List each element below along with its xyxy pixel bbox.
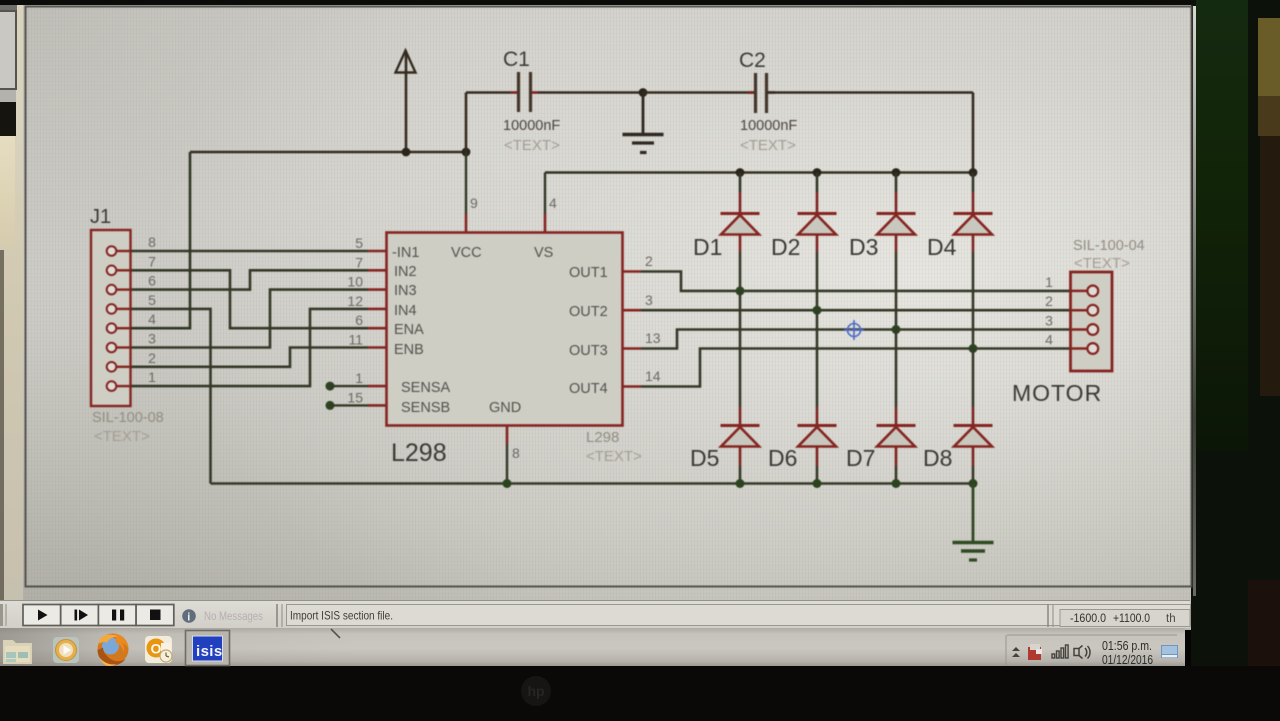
junction D7 / ground rail xyxy=(892,479,901,488)
wire VCC column upper xyxy=(465,93,468,153)
J1 pin stub 2 xyxy=(117,366,131,368)
junction GND pin / ground rail xyxy=(503,479,512,488)
svg-text:th: th xyxy=(1166,613,1176,625)
D2 anode lead xyxy=(816,235,819,253)
ground symbol (top, between C1 and C2) xyxy=(623,93,664,153)
J1 pin stub 4 xyxy=(117,327,131,329)
junction power arrow / VCC rail xyxy=(402,148,411,157)
diode D5 xyxy=(721,426,760,447)
pin 9 VCC of U1 xyxy=(465,152,467,214)
MOTOR pin stub 1 xyxy=(1070,290,1087,293)
pin stub OUT 14 xyxy=(623,385,642,388)
wire J1.5 to ground rail xyxy=(131,309,211,484)
right bezel xyxy=(1191,0,1280,721)
D1 anode lead xyxy=(739,235,742,253)
D5 anode lead xyxy=(739,447,742,467)
wire VS bus to D1 xyxy=(739,173,742,193)
pin stub 11 xyxy=(368,346,387,349)
pin 4 VS of U1 xyxy=(544,173,546,215)
junction VS bus / D3 column xyxy=(892,168,901,177)
diode D7 xyxy=(877,426,916,447)
wire OUT3 to MOTOR pin3 xyxy=(641,330,1071,349)
wire VCC rail horizontal xyxy=(190,151,466,154)
pin stub OUT 2 xyxy=(623,270,642,273)
D8 anode lead xyxy=(972,447,975,467)
svg-text:i: i xyxy=(187,612,190,624)
junction D5 / ground rail xyxy=(736,479,745,488)
wire OUT4 to MOTOR pin4 xyxy=(641,349,1071,387)
taskbar media player icon xyxy=(53,637,79,663)
svg-text:isis: isis xyxy=(196,643,223,660)
schematic sheet border xyxy=(26,7,1192,587)
taskbar ISIS icon active xyxy=(186,631,230,666)
junction SENSA stub xyxy=(326,382,335,391)
wire top rail ground tap to C2 xyxy=(643,91,755,94)
J1 pin stub 5 xyxy=(117,308,131,310)
D7 anode lead xyxy=(895,447,898,467)
wire J1.1 to IN4 xyxy=(131,309,368,386)
capacitor C1 xyxy=(511,72,539,112)
pin stub OUT 13 xyxy=(623,347,642,350)
D3 cathode lead xyxy=(895,192,898,214)
wire J1.8 to IN1 xyxy=(131,250,368,253)
D8 cathode lead xyxy=(972,407,975,426)
wire right drop to VS bus xyxy=(972,93,975,173)
diode D6 xyxy=(798,426,837,447)
D7 cathode lead xyxy=(895,407,898,426)
wire J1.2 to ENB xyxy=(131,348,368,367)
MOTOR pin stub 4 xyxy=(1070,347,1087,350)
D1 cathode lead xyxy=(739,192,742,214)
junction D3/D7 column on OUT line xyxy=(892,325,901,334)
junction top rail / ground xyxy=(639,88,648,97)
editor cursor crosshair xyxy=(844,320,864,340)
J1 pin stub 8 xyxy=(117,250,131,252)
J1 pin circle 1 xyxy=(107,381,117,391)
pin stub OUT 3 xyxy=(623,309,642,312)
connector MOTOR SIL-100-04 body xyxy=(1071,272,1113,371)
svg-text:+1100.0: +1100.0 xyxy=(1113,611,1150,625)
wire OUT2 to MOTOR pin2 xyxy=(641,309,1071,312)
wire SENSB stub xyxy=(330,404,368,406)
D4 cathode lead xyxy=(972,192,975,214)
junction D2/D6 column on OUT line xyxy=(813,306,822,315)
junction D8 / ground rail xyxy=(969,479,978,488)
svg-text:-1600.0: -1600.0 xyxy=(1070,611,1106,625)
wire top rail C1 to ground tap xyxy=(538,91,643,94)
wire J1.6 to IN2 xyxy=(131,270,368,289)
connector J1 SIL-100-08 body xyxy=(91,230,131,406)
MOTOR pin stub 3 xyxy=(1070,328,1087,331)
wire D1 to OUT line xyxy=(739,252,742,291)
taskbar xyxy=(0,627,1185,666)
system tray xyxy=(1007,634,1177,636)
wire J1.3 to IN3 xyxy=(131,290,368,348)
power symbol VCC arrow xyxy=(396,51,416,153)
wire D2 to OUT line xyxy=(816,252,819,310)
D6 anode lead xyxy=(816,447,819,467)
pin stub 1 SENSA xyxy=(368,385,387,388)
left margin column xyxy=(0,0,23,600)
J1 pin stub 1 xyxy=(117,385,131,387)
wire D3 to OUT line xyxy=(895,252,898,330)
taskbar folder icon xyxy=(3,640,32,664)
wire OUT1 to MOTOR pin1 xyxy=(641,272,1071,291)
wire top rail C2 to right corner xyxy=(767,91,973,94)
top bezel strip xyxy=(0,0,1280,5)
wire ground rail bottom xyxy=(211,482,974,485)
wire VS bus to D4 xyxy=(972,173,975,193)
J1 pin circle 3 xyxy=(107,343,117,353)
status toolbar row xyxy=(0,600,1190,628)
J1 pin circle 6 xyxy=(107,285,117,295)
pin stub 15 SENSB xyxy=(368,404,387,407)
J1 pin circle 2 xyxy=(107,362,117,372)
pin stub 7 xyxy=(368,269,387,272)
junction D1/D5 column on OUT line xyxy=(736,286,745,295)
bottom black bezel xyxy=(0,666,1280,721)
diode D3 xyxy=(877,214,916,235)
svg-text:Import ISIS section file.: Import ISIS section file. xyxy=(290,609,393,623)
J1 pin stub 6 xyxy=(117,288,131,290)
wire D4 to OUT line xyxy=(972,252,975,349)
diode D8 xyxy=(954,426,993,447)
D6 cathode lead xyxy=(816,407,819,426)
svg-text:01/12/2016: 01/12/2016 xyxy=(1102,653,1153,667)
capacitor C2 xyxy=(748,73,775,113)
junction VS bus / D1 column xyxy=(736,168,745,177)
wire D5 to ground rail xyxy=(739,466,742,484)
MOTOR pin stub 2 xyxy=(1070,309,1087,312)
junction D6 / ground rail xyxy=(813,479,822,488)
diode D4 xyxy=(954,214,993,235)
wire OUT line down to D8 xyxy=(972,349,975,408)
wire OUT line down to D6 xyxy=(816,310,819,407)
J1 pin circle 4 xyxy=(107,323,117,333)
wire J1.7 to ENA xyxy=(131,270,368,328)
D5 cathode lead xyxy=(739,407,742,426)
junction D4/D8 column on OUT line xyxy=(969,344,978,353)
pin stub 12 xyxy=(368,308,387,311)
wire VS bus above diodes xyxy=(545,171,973,174)
junction VS bus / D4 column xyxy=(969,168,978,177)
svg-text:No Messages: No Messages xyxy=(204,609,263,623)
wire VS bus to D2 xyxy=(816,173,819,193)
wire J1.4 to VCC rail xyxy=(131,152,190,328)
taskbar outlook icon xyxy=(145,636,172,663)
D4 anode lead xyxy=(972,235,975,253)
junction VCC rail / VCC pin column xyxy=(462,148,471,157)
taskbar firefox icon xyxy=(98,634,129,667)
J1 pin stub 7 xyxy=(117,269,131,271)
pin 8 GND of U1 xyxy=(506,426,509,445)
J1 pin circle 8 xyxy=(107,246,117,256)
wire top rail from VCC column to C1 xyxy=(466,91,511,94)
wire VS bus to D3 xyxy=(895,173,898,193)
junction SENSB stub xyxy=(326,401,335,410)
svg-text:01:56 p.m.: 01:56 p.m. xyxy=(1102,639,1152,653)
pin stub 10 xyxy=(368,288,387,291)
pin stub 5 xyxy=(368,250,387,253)
diode D2 xyxy=(798,214,837,235)
diode D1 xyxy=(721,214,760,235)
op-amp/driver IC U1 L298 body xyxy=(387,233,623,426)
wire OUT line down to D7 xyxy=(895,330,898,408)
wire D6 to ground rail xyxy=(816,466,819,484)
wire OUT line down to D5 xyxy=(739,291,742,407)
D2 cathode lead xyxy=(816,192,819,214)
wire D7 to ground rail xyxy=(895,466,898,484)
wire D8 to ground rail xyxy=(972,466,975,484)
J1 pin stub 3 xyxy=(117,346,131,348)
wire SENSA stub xyxy=(330,385,368,387)
J1 pin circle 7 xyxy=(107,266,117,276)
junction VS bus / D2 column xyxy=(813,168,822,177)
D3 anode lead xyxy=(895,235,898,253)
J1 pin circle 5 xyxy=(107,304,117,314)
ground symbol (bottom right) xyxy=(953,484,994,561)
pin stub 6 xyxy=(368,327,387,330)
